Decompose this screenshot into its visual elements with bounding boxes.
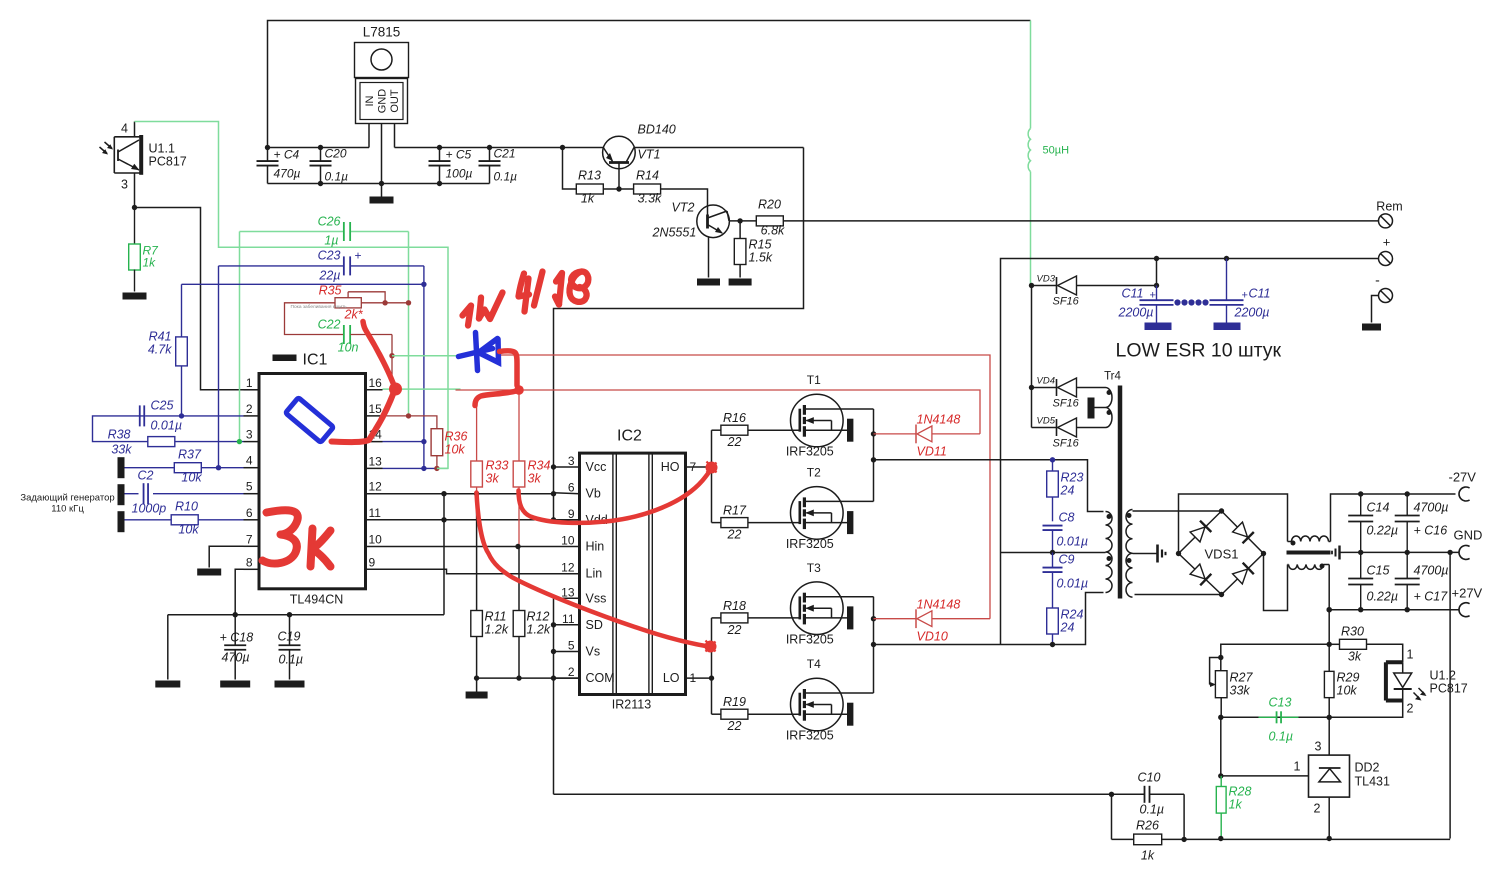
handdrawn red blob at IC1 pin16	[389, 383, 402, 396]
svg-text:VD5: VD5	[1037, 416, 1056, 427]
svg-text:3.3k: 3.3k	[638, 192, 662, 206]
wire U1.1 pin3	[134, 173, 136, 208]
svg-text:R36: R36	[445, 430, 468, 444]
wire navy R41 top rail to pin14 node	[182, 283, 424, 285]
handdrawn red wire from blue resistor to pin14 region	[332, 391, 395, 443]
diode VD4 SF16	[1032, 376, 1106, 410]
svg-text:LOW ESR 10 штук: LOW ESR 10 штук	[1116, 340, 1282, 362]
svg-text:GND: GND	[1454, 528, 1483, 543]
svg-text:10k: 10k	[178, 523, 199, 537]
svg-text:C11: C11	[1121, 287, 1143, 301]
wire capacitor bottom rail	[268, 183, 490, 185]
node C16 bottom	[1405, 550, 1410, 555]
node C17 bottom	[1405, 607, 1410, 612]
svg-text:C8: C8	[1059, 511, 1075, 525]
node R12 bottom	[516, 675, 521, 680]
svg-text:R12: R12	[527, 610, 550, 624]
node R34 to pin10 row	[515, 544, 520, 549]
svg-text:0.01µ: 0.01µ	[151, 419, 183, 433]
node R13-R14-VT1 base	[616, 186, 621, 191]
wire red thin diode row to VD10 branch	[501, 355, 991, 619]
svg-text:2: 2	[1407, 702, 1414, 716]
svg-text:22: 22	[727, 435, 742, 449]
node R23 top (blue)	[1050, 457, 1055, 462]
ground - terminal	[1362, 324, 1381, 331]
resistor R36 10k (maroon)	[431, 429, 467, 469]
transistor VT2 2N5551 (NPN)	[652, 201, 730, 278]
resistor R33 3k (red)	[471, 401, 509, 494]
node green C26 branch at pin15	[406, 413, 411, 418]
svg-text:R18: R18	[723, 599, 746, 613]
svg-text:1k: 1k	[1229, 798, 1243, 812]
svg-text:L7815: L7815	[363, 25, 401, 40]
svg-text:0.1µ: 0.1µ	[494, 170, 518, 184]
node R35 wiper	[382, 300, 387, 305]
svg-text:33k: 33k	[1230, 684, 1251, 698]
svg-text:10: 10	[369, 533, 383, 547]
svg-text:12: 12	[369, 480, 383, 494]
node Vdd	[551, 517, 556, 522]
svg-text:22µ: 22µ	[318, 269, 340, 283]
wire choke bottom to +27V rail	[1328, 565, 1330, 610]
svg-text:0.22µ: 0.22µ	[1367, 524, 1399, 538]
ground R7	[123, 293, 147, 300]
svg-text:C14: C14	[1367, 501, 1390, 515]
svg-text:1N4148: 1N4148	[917, 598, 961, 612]
svg-text:1.2k: 1.2k	[485, 623, 509, 637]
node bridge right	[1261, 551, 1266, 556]
svg-text:6.8k: 6.8k	[761, 224, 785, 238]
wire C10/R26 left link	[1111, 794, 1113, 839]
optocoupler U1.1 PC817 (phototransistor)	[100, 122, 187, 192]
svg-text:IRF3205: IRF3205	[786, 537, 834, 551]
wire R27 bottom to DD2 pin1 row	[1220, 717, 1222, 776]
diode VD11 1N4148 (red)	[874, 413, 981, 459]
handdrawn blue resistor 3k across IC1	[285, 398, 333, 443]
wire DD2 pin2	[1328, 797, 1330, 838]
handdrawn red blob at LO	[705, 641, 717, 653]
svg-text:R23: R23	[1061, 471, 1084, 485]
resistor R26 1k	[1112, 819, 1185, 863]
svg-text:GND: GND	[377, 89, 389, 114]
wire T1-T2 drain vertical	[873, 409, 875, 501]
svg-text:C13: C13	[1269, 696, 1292, 710]
node VD4 anode	[1029, 385, 1034, 390]
node C8-C9 tap	[1050, 550, 1055, 555]
ground bar left of IC1 label	[273, 355, 297, 362]
svg-text:16: 16	[369, 376, 383, 390]
svg-text:22: 22	[727, 719, 742, 733]
svg-text:R15: R15	[749, 238, 772, 252]
node C20 bottom	[318, 181, 323, 186]
svg-text:R41: R41	[149, 330, 172, 344]
node bridge top	[1219, 508, 1224, 513]
svg-text:4: 4	[121, 122, 128, 136]
svg-text:470µ: 470µ	[274, 167, 301, 181]
svg-text:1: 1	[246, 376, 253, 390]
chassis ground secondary tap	[1158, 545, 1166, 563]
svg-text:R35: R35	[319, 284, 342, 298]
wire IC2 Vcc bracket rail	[554, 467, 580, 520]
svg-text:R28: R28	[1229, 785, 1252, 799]
resistor R41 4.7k (blue)	[148, 284, 187, 416]
node R11 bottom	[474, 675, 479, 680]
svg-text:DD2: DD2	[1355, 761, 1380, 775]
wire row left end down	[167, 615, 169, 680]
handdrawn red wire diode to VD row	[500, 351, 518, 386]
node C11b top	[1224, 256, 1229, 261]
svg-text:+ C18: + C18	[220, 631, 254, 645]
wire L7815 IN lead	[368, 124, 370, 148]
node COM	[551, 675, 556, 680]
svg-text:5: 5	[568, 639, 575, 653]
capacitor C14 0.22µ	[1348, 494, 1398, 552]
Tr4 primary winding	[1106, 512, 1113, 593]
wire VD3 cathode up to + bus	[1156, 259, 1158, 286]
choke bottom winding	[1288, 564, 1330, 570]
svg-text:BD140: BD140	[638, 123, 676, 137]
capacitor C8 0.01µ (blue)	[1043, 511, 1089, 553]
svg-text:T3: T3	[807, 561, 821, 575]
node C16 top	[1405, 491, 1410, 496]
wire IC1 pin8 down to C18 row	[235, 569, 243, 614]
svg-text:+: +	[1150, 290, 1156, 302]
wire L7815 GND lead	[381, 124, 383, 184]
ground COM rail	[476, 679, 478, 692]
node LO junction	[709, 675, 714, 680]
svg-text:C11: C11	[1249, 287, 1271, 301]
node GND rail	[379, 181, 384, 186]
svg-text:R27: R27	[1230, 671, 1254, 685]
resistor R18 22	[721, 599, 800, 637]
svg-text:R38: R38	[108, 428, 131, 442]
capacitor C11 2200µ (right, blue)	[1210, 259, 1271, 331]
svg-text:R34: R34	[528, 459, 551, 473]
svg-text:2: 2	[1314, 802, 1321, 816]
svg-text:3k: 3k	[486, 472, 500, 486]
resistor R15 1.5k	[734, 221, 773, 278]
wire HO pin to R16/R17	[686, 430, 722, 522]
svg-text:0.1µ: 0.1µ	[1269, 730, 1294, 744]
terminal +	[1379, 252, 1393, 266]
wire R35 left to C22 row	[285, 303, 344, 335]
resistor R12 1.2k	[513, 547, 551, 679]
svg-text:C23: C23	[318, 249, 341, 263]
svg-text:R10: R10	[175, 500, 198, 514]
svg-text:C21: C21	[494, 147, 516, 161]
svg-text:1.2k: 1.2k	[527, 623, 551, 637]
svg-text:IN: IN	[364, 95, 376, 106]
svg-text:IRF3205: IRF3205	[786, 445, 834, 459]
node pin11 link	[441, 517, 446, 522]
capacitor C17 4700µ	[1395, 552, 1449, 609]
resistor R37 10k (blue)	[125, 448, 244, 485]
resistor R27 33k trimmer	[1210, 655, 1254, 718]
svg-text:-: -	[1375, 272, 1380, 288]
node VD11 tap	[871, 431, 876, 436]
resistor R35 2k* (trimmer, red)	[291, 284, 409, 322]
node R34 tap	[516, 387, 521, 392]
svg-text:0.01µ: 0.01µ	[1057, 535, 1089, 549]
svg-text:R20: R20	[758, 198, 781, 212]
node Vcc	[551, 464, 556, 469]
wire secondary center tap to chassis	[1133, 553, 1157, 555]
svg-text:-27V: -27V	[1449, 470, 1477, 485]
svg-text:2200µ: 2200µ	[1118, 306, 1154, 320]
node C19 top	[287, 612, 292, 617]
wire navy pin13 row	[383, 467, 437, 469]
svg-text:R19: R19	[723, 695, 746, 709]
svg-text:R14: R14	[636, 169, 659, 183]
node GND to feedback rail	[1447, 550, 1452, 555]
wire green U1.1 pin4 to IC1 pin13 net	[135, 122, 449, 469]
svg-text:0.1µ: 0.1µ	[325, 170, 349, 184]
node pin16 feedback tap	[389, 353, 394, 358]
choke core	[1287, 551, 1331, 555]
node VD10 tap	[871, 616, 876, 621]
resistor R13 1k	[576, 169, 603, 206]
capacitor C25 0.01µ (blue)	[93, 399, 244, 442]
node R36 bottom	[434, 466, 439, 471]
bridge diode bottom-right	[1232, 563, 1254, 585]
Tr4 secondary winding	[1126, 510, 1133, 598]
wire R14 to VT2 base	[660, 189, 707, 215]
wire bottom rail	[1184, 838, 1450, 840]
svg-text:SD: SD	[586, 618, 603, 632]
svg-text:10k: 10k	[1337, 684, 1358, 698]
wire IC2 Vss/SD/Vs/COM bracket rail	[554, 598, 580, 794]
svg-text:C20: C20	[325, 147, 347, 161]
wire secondary top to bridge	[1133, 510, 1222, 512]
svg-text:SF16: SF16	[1053, 398, 1080, 410]
ground C19	[275, 681, 305, 688]
wire +27V down to R30 row	[1328, 610, 1330, 645]
svg-text:2N5551: 2N5551	[652, 226, 697, 240]
svg-text:10n: 10n	[338, 341, 359, 355]
svg-text:7: 7	[246, 532, 253, 546]
svg-text:10k: 10k	[181, 471, 202, 485]
svg-text:3k: 3k	[1348, 650, 1362, 664]
svg-text:Rem: Rem	[1376, 200, 1402, 214]
input bar 3	[118, 511, 125, 532]
wire IC1 pin10 row to IC2 Hin	[383, 546, 580, 548]
svg-text:1000p: 1000p	[132, 502, 167, 516]
svg-text:0.22µ: 0.22µ	[1367, 590, 1399, 604]
wire VT2 collector to R20	[729, 220, 756, 222]
node C14 bottom	[1358, 550, 1363, 555]
node pin13 navy link	[421, 466, 426, 471]
bridge diode top-left	[1189, 521, 1211, 543]
handdrawn red wire R34 to HO	[519, 468, 712, 523]
node +27V choke junction	[1327, 607, 1332, 612]
terminal -	[1379, 289, 1393, 303]
node bridge bottom	[1219, 592, 1224, 597]
node C10 left	[1109, 792, 1114, 797]
svg-text:SF16: SF16	[1053, 296, 1080, 308]
node C20 top	[318, 145, 323, 150]
svg-text:OUT: OUT	[389, 89, 401, 113]
svg-text:+: +	[355, 249, 362, 263]
svg-text:VT1: VT1	[638, 148, 661, 162]
diode VD5 SF16	[1032, 416, 1106, 450]
terminal Rem	[1379, 214, 1393, 228]
wire R11/R12 bottoms to COM rail	[477, 677, 580, 679]
node C13 right	[1327, 715, 1332, 720]
node C18 top	[233, 612, 238, 617]
node VD3 anode green	[1029, 283, 1034, 288]
transistor T4 IRF3205 MOSFET	[786, 657, 874, 743]
svg-text:Vs: Vs	[586, 645, 601, 659]
wire top bus from C4 to inductor	[268, 21, 1031, 148]
wire COM rail to bottom	[554, 793, 1112, 795]
svg-text:22: 22	[727, 528, 742, 542]
capacitor C20 0.1µ	[310, 147, 349, 184]
resistor R28 1k (green)	[1216, 776, 1251, 839]
svg-text:IC1: IC1	[303, 352, 328, 369]
svg-text:VDS1: VDS1	[1205, 547, 1239, 562]
node R24 bottom	[1050, 642, 1055, 647]
resistor R14 3.3k	[634, 169, 662, 206]
node R35 to C26 branch	[406, 300, 411, 305]
IC2 left pin names and numbers	[561, 454, 615, 685]
node T3/T4 output	[871, 642, 876, 647]
wire green C26 left to IC1 pin3	[239, 232, 241, 442]
IC IC2 IR2113 body	[580, 428, 686, 712]
wire bridge left corner to choke top	[1179, 494, 1288, 554]
wire - terminal to ground	[1372, 296, 1379, 323]
IC IC1 TL494CN body	[259, 352, 366, 607]
svg-text:1: 1	[1294, 760, 1301, 774]
svg-text:0.01µ: 0.01µ	[1057, 577, 1089, 591]
capacitor C19 0.1µ	[278, 615, 304, 680]
terminal -27V	[1459, 487, 1470, 501]
wire DD2 pin3	[1328, 717, 1330, 755]
node Vb	[551, 491, 556, 496]
transformer Tr4 core	[1118, 386, 1123, 599]
wire GND rail down right side	[1449, 552, 1451, 838]
wire secondary bottom to bridge	[1135, 594, 1222, 596]
wire + bus rail	[1001, 259, 1379, 645]
svg-text:3: 3	[1315, 740, 1322, 754]
svg-text:3: 3	[246, 428, 253, 442]
svg-text:R26: R26	[1136, 819, 1159, 833]
svg-text:4.7k: 4.7k	[148, 343, 172, 357]
svg-text:+ C17: + C17	[1414, 590, 1449, 604]
svg-text:HO: HO	[661, 460, 680, 474]
wire green pin16 node to handdrawn diode	[392, 355, 460, 357]
wire pin3 to IC1 pin1	[135, 208, 260, 390]
svg-text:C25: C25	[151, 399, 174, 413]
transistor VT1 BD140 (PNP)	[603, 123, 676, 190]
svg-text:COM: COM	[586, 671, 615, 685]
wire main 15V rail	[268, 147, 370, 149]
resistor R11 1.2k	[471, 494, 509, 678]
wire C18/C19 ground row	[168, 614, 444, 616]
node R13 branch	[560, 145, 565, 150]
svg-text:T1: T1	[807, 373, 821, 387]
svg-text:Vcc: Vcc	[586, 460, 607, 474]
inductor L 50µH (green)	[1028, 21, 1069, 286]
wire bus down from 15V rail to IC2 Vcc rail	[554, 148, 804, 520]
svg-text:SF16: SF16	[1053, 438, 1080, 450]
svg-text:R37: R37	[178, 448, 202, 462]
transistor T3 IRF3205 MOSFET	[786, 561, 874, 647]
svg-text:24: 24	[1060, 621, 1075, 635]
node navy rail joins C23 branch	[421, 282, 426, 287]
chassis ground GND rail	[1332, 546, 1344, 560]
resistor R24 24 (blue)	[1047, 608, 1084, 645]
svg-text:VD11: VD11	[917, 445, 947, 459]
wire T1/T2 output to primary top	[874, 460, 1104, 512]
wire R30 row to R27	[1221, 644, 1329, 670]
wire DD2 pin1	[1221, 775, 1309, 777]
svg-text:Задающий генератор: Задающий генератор	[20, 493, 114, 504]
wire maroon pin15 row to R36	[383, 416, 437, 429]
svg-text:1N4148: 1N4148	[917, 413, 961, 427]
svg-text:0.1µ: 0.1µ	[279, 653, 304, 667]
svg-text:+ C4: + C4	[274, 148, 300, 162]
capacitor C21 0.1µ	[479, 147, 518, 184]
wire green C26 right to R35 node and IC1 pin15	[408, 232, 410, 416]
wire navy C23 right down to IC1 pin14	[423, 266, 425, 442]
svg-text:1µ: 1µ	[324, 234, 338, 248]
wire LO pin to R18/R19	[686, 618, 722, 714]
node C15 bottom	[1358, 607, 1363, 612]
svg-text:VD4: VD4	[1037, 376, 1055, 387]
diode VD10 1N4148 (red)	[874, 598, 991, 644]
node C4 top	[265, 145, 270, 150]
svg-text:R24: R24	[1061, 608, 1084, 622]
capacitor C2 1000p (blue)	[125, 469, 244, 516]
capacitor C9 0.01µ (blue)	[1043, 553, 1089, 609]
svg-text:VD3: VD3	[1037, 274, 1056, 285]
wire C22 right down to IC1 pin16	[391, 335, 393, 390]
IC DD2 TL431	[1309, 755, 1390, 797]
bridge diode top-right	[1232, 521, 1254, 543]
svg-text:1.5k: 1.5k	[749, 251, 773, 265]
svg-text:10k: 10k	[445, 443, 466, 457]
wire L7815 OUT lead	[394, 124, 396, 148]
input bar 2	[118, 484, 125, 505]
svg-text:3k: 3k	[528, 472, 542, 486]
node DD2 pin2 bottom	[1327, 836, 1332, 841]
node +27V to R30 branch	[1327, 607, 1332, 612]
svg-text:C22: C22	[318, 318, 341, 332]
node C5 top	[437, 145, 442, 150]
svg-text:5: 5	[246, 480, 253, 494]
resistor R30 3k	[1329, 625, 1403, 664]
svg-text:100µ: 100µ	[446, 167, 473, 181]
ground for C4 row	[381, 184, 383, 197]
svg-text:VT2: VT2	[672, 201, 695, 215]
svg-text:R13: R13	[578, 169, 601, 183]
capacitor C11 2200µ (left, blue)	[1118, 286, 1174, 331]
resistor R7 1k (green)	[129, 208, 159, 292]
svg-text:C10: C10	[1138, 771, 1161, 785]
ground C18	[220, 681, 250, 688]
svg-text:11: 11	[562, 612, 575, 626]
terminal GND	[1459, 545, 1470, 559]
svg-text:9: 9	[369, 555, 376, 569]
svg-text:C19: C19	[278, 630, 301, 644]
wire link pins 11-12 down to C18 row	[443, 494, 445, 615]
svg-text:+ C5: + C5	[446, 148, 472, 162]
capacitor C10 0.1µ	[1112, 771, 1185, 817]
IC1 left pin stubs and numbers	[244, 376, 260, 570]
capacitor C4 470µ	[257, 148, 301, 184]
svg-text:IC2: IC2	[617, 428, 642, 445]
svg-text:C26: C26	[318, 215, 341, 229]
